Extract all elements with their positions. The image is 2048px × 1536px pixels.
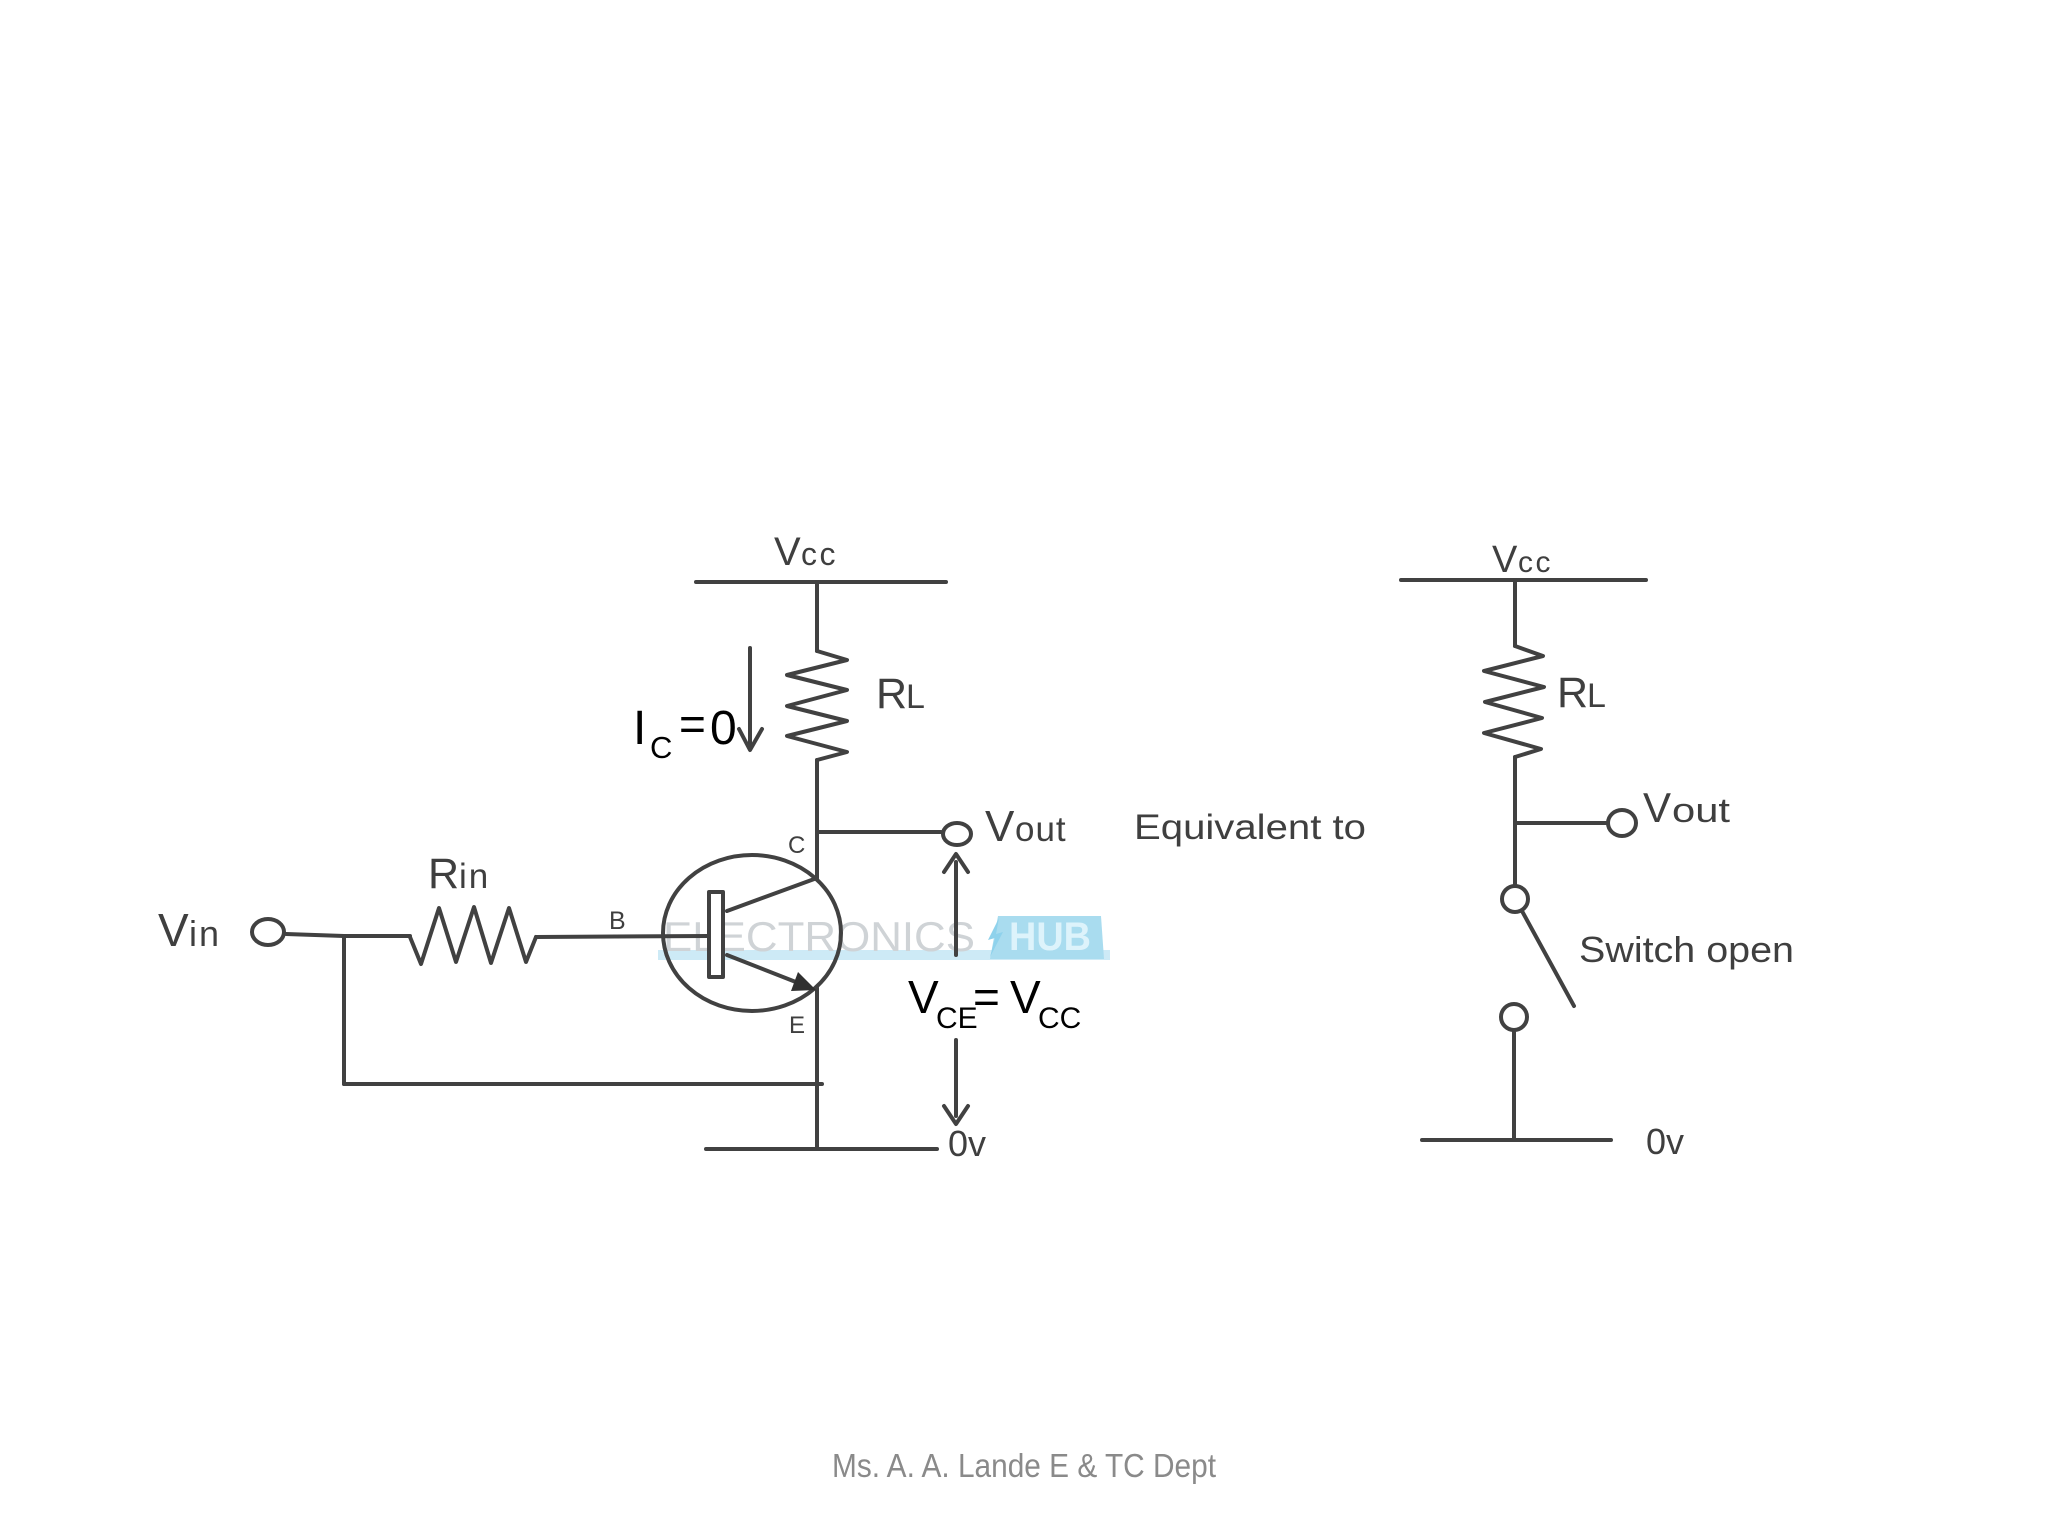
- svg-text:V: V: [1010, 971, 1041, 1023]
- svg-text:R: R: [428, 850, 459, 898]
- svg-text:CC: CC: [1038, 1002, 1081, 1035]
- svg-text:HUB: HUB: [1009, 915, 1091, 959]
- svg-text:R: R: [1557, 669, 1588, 717]
- svg-text:CE: CE: [936, 1002, 978, 1035]
- svg-text:0v: 0v: [1646, 1121, 1684, 1162]
- svg-text:cc: cc: [801, 536, 838, 572]
- svg-text:R: R: [876, 670, 907, 718]
- svg-text:Switch open: Switch open: [1579, 929, 1794, 970]
- svg-text:V: V: [1643, 784, 1671, 831]
- svg-text:V: V: [158, 904, 189, 956]
- svg-text:L: L: [906, 678, 925, 716]
- svg-text:out: out: [1015, 810, 1067, 849]
- svg-text:0v: 0v: [948, 1123, 986, 1164]
- svg-text:Ms. A. A. Lande E & TC Dept: Ms. A. A. Lande E & TC Dept: [832, 1447, 1216, 1484]
- svg-text:V: V: [1492, 539, 1518, 581]
- svg-text:cc: cc: [1518, 546, 1553, 579]
- svg-text:=: =: [679, 698, 706, 750]
- svg-text:C: C: [650, 730, 672, 765]
- svg-text:Equivalent to: Equivalent to: [1134, 808, 1366, 847]
- svg-text:in: in: [189, 913, 221, 954]
- svg-text:in: in: [459, 857, 490, 896]
- svg-text:C: C: [788, 832, 805, 859]
- svg-text:E: E: [789, 1012, 805, 1039]
- svg-text:out: out: [1672, 792, 1731, 830]
- svg-text:=: =: [973, 971, 1000, 1023]
- svg-text:B: B: [609, 907, 626, 935]
- svg-text:V: V: [985, 802, 1015, 851]
- svg-text:V: V: [774, 530, 801, 574]
- svg-text:I: I: [633, 702, 646, 755]
- svg-text:V: V: [908, 971, 939, 1023]
- svg-text:0: 0: [710, 702, 737, 755]
- svg-text:L: L: [1587, 677, 1606, 715]
